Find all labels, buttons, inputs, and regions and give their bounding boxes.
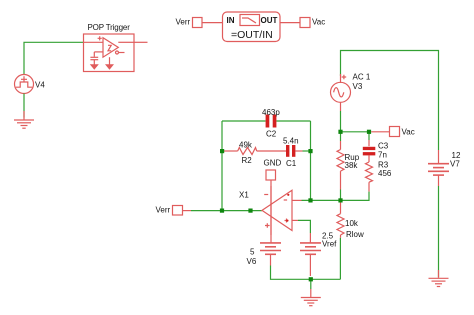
svg-text:R2: R2	[242, 156, 253, 165]
svg-text:OUT: OUT	[261, 16, 278, 25]
POP Trigger subcircuit box	[84, 34, 135, 72]
capacitor C2	[266, 115, 277, 128]
label Rup 38k	[345, 153, 360, 170]
svg-text:463p: 463p	[262, 108, 280, 117]
resistor Rup	[337, 132, 344, 200]
wire transfer block to Vac tag	[280, 22, 300, 24]
node R2/C1 right	[308, 149, 312, 153]
capacitor C1	[286, 145, 303, 157]
wire Verr tag to op-amp output	[183, 210, 263, 212]
wire V7 bottom to ground	[438, 186, 440, 278]
label 5 / V6	[247, 248, 257, 267]
junction node dots	[220, 130, 371, 282]
ground (below Vref node)	[301, 298, 321, 306]
label 2.5 / Vref	[322, 231, 337, 248]
jumper tag GND	[266, 170, 276, 180]
op-amp power rail (GND tag to V6)	[270, 180, 272, 243]
label 5.4n / C1	[283, 136, 299, 168]
label V4	[35, 81, 45, 90]
label Verr (left)	[156, 206, 171, 215]
wire C1 to right rail	[303, 150, 311, 152]
svg-text:Rlow: Rlow	[346, 230, 364, 239]
ground (below V7)	[429, 270, 449, 287]
wire Verr tag to transfer block	[202, 22, 223, 24]
node Vac row left	[338, 130, 342, 134]
label 12 / V7	[450, 151, 461, 168]
port tag Verr (left)	[173, 206, 183, 216]
svg-text:7n: 7n	[378, 151, 387, 160]
node output right	[248, 209, 252, 213]
battery V6	[260, 243, 281, 266]
svg-text:V4: V4	[35, 81, 45, 90]
wire R3 bottom to minus-input rail	[341, 192, 370, 201]
node Vac row right	[367, 130, 371, 134]
node bottom rail	[309, 277, 313, 281]
ground (below V4)	[14, 111, 34, 128]
AC source V3	[331, 74, 351, 111]
svg-text:V6: V6	[247, 257, 257, 266]
label Vac (top)	[312, 18, 325, 27]
wire bottom rail to ground	[310, 279, 312, 297]
resistor R2	[238, 148, 257, 155]
feedback top wire	[222, 120, 311, 122]
wire V3 bottom to Vac node	[340, 111, 342, 132]
wire Rlow bottom to bottom rail	[339, 238, 341, 279]
capacitor C3	[363, 132, 376, 162]
wire V4 bottom to ground	[23, 94, 25, 118]
wire from V4 top to POP Trigger box	[24, 42, 84, 74]
battery Vref	[300, 233, 321, 276]
wire R2 to C1	[257, 150, 286, 152]
label AC 1 / V3	[353, 73, 371, 92]
label Verr (top)	[176, 18, 191, 27]
svg-text:10k: 10k	[345, 219, 359, 228]
transfer function block =OUT/IN	[223, 12, 281, 42]
node minus rail right	[338, 198, 342, 202]
label X1	[239, 191, 249, 200]
node R2/C1 left	[220, 149, 224, 153]
battery V7	[428, 150, 449, 186]
svg-text:38k: 38k	[345, 161, 359, 170]
svg-text:Vref: Vref	[322, 240, 337, 249]
label 463p / C2	[262, 108, 280, 138]
output stub wire right of POP box	[134, 41, 148, 43]
svg-text:POP Trigger: POP Trigger	[88, 23, 131, 32]
svg-text:Vac: Vac	[312, 18, 325, 27]
op-amp X1	[262, 186, 302, 235]
resistor Rlow	[337, 200, 344, 237]
node output left	[220, 209, 224, 213]
svg-text:C2: C2	[266, 130, 277, 139]
label GND	[264, 159, 282, 168]
svg-text:AC 1: AC 1	[353, 73, 371, 82]
label Vac (right)	[402, 128, 415, 137]
svg-text:Verr: Verr	[176, 18, 191, 27]
svg-text:R3: R3	[378, 161, 389, 170]
svg-text:5: 5	[250, 248, 255, 257]
port tag Verr (top)	[193, 18, 203, 28]
svg-text:456: 456	[378, 169, 392, 178]
wire Vac node row	[341, 131, 370, 133]
label 49k / R2	[239, 141, 253, 165]
port tag Vac (top)	[300, 18, 310, 28]
wire minus-input row	[302, 199, 341, 201]
svg-text:49k: 49k	[239, 141, 253, 150]
svg-text:5.4n: 5.4n	[283, 136, 299, 145]
feedback right rail	[310, 121, 312, 200]
svg-text:=OUT/IN: =OUT/IN	[231, 29, 273, 41]
label 10k / Rlow	[345, 219, 364, 239]
svg-text:IN: IN	[227, 16, 235, 25]
svg-text:Vac: Vac	[402, 128, 415, 137]
svg-text:GND: GND	[264, 159, 282, 168]
wire plus-input to Vref	[298, 220, 310, 233]
svg-text:Verr: Verr	[156, 206, 171, 215]
svg-text:V7: V7	[450, 159, 460, 168]
svg-text:C1: C1	[286, 159, 297, 168]
feedback middle wire (R2/C1 row)	[222, 150, 238, 152]
resistor R3	[366, 162, 373, 192]
feedback left rail	[221, 121, 223, 211]
label C3 7n	[378, 141, 389, 159]
svg-text:V3: V3	[353, 82, 363, 91]
svg-text:X1: X1	[239, 191, 249, 200]
port tag Vac (right)	[390, 127, 400, 137]
label R3 456	[378, 161, 392, 179]
voltage source V4	[15, 75, 34, 94]
bottom rail V6/Vref	[271, 266, 341, 280]
node minus rail left	[308, 198, 312, 202]
POP Trigger label	[88, 23, 131, 32]
wire V3 top rail to V7 battery	[341, 51, 439, 151]
svg-text:C3: C3	[378, 141, 389, 150]
